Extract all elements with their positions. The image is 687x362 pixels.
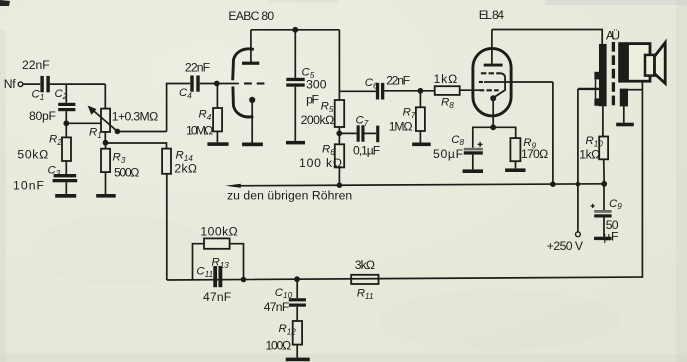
svg-text:2kΩ: 2kΩ [174,161,197,175]
svg-text:10nF: 10nF [13,179,44,193]
wire riser up to C4 line [166,84,168,132]
cathode dot of U1 [249,97,255,103]
wire C9 top lead [603,184,605,210]
wire junction to R14 [106,143,167,149]
svg-text:100 kΩ: 100 kΩ [299,156,342,170]
svg-text:EABC 80: EABC 80 [228,9,274,23]
wire R7 to ground [419,131,421,143]
node 250V riser on rail [576,182,581,187]
wire C4 to grid junction [200,83,217,85]
grid g1 dashes of U2 [480,89,499,91]
svg-text:170Ω: 170Ω [521,147,548,161]
wire R6 down to rail [338,167,340,185]
wire R2 to C3 [65,161,67,174]
svg-text:300: 300 [306,78,327,92]
ground under C5 [286,141,305,145]
wire C7 to end terminal [365,132,377,134]
ground under secondary [616,123,634,127]
rail arrow to other tubes [225,184,241,188]
svg-text:47nF: 47nF [264,300,290,314]
node R10/C9 on rail [601,181,607,187]
wire C7 branch [339,132,356,134]
svg-text:Nf: Nf [4,77,16,91]
svg-text:zu den übrigen Röhren: zu den übrigen Röhren [227,189,352,203]
svg-text:22nF: 22nF [22,58,50,72]
node cathode junction [490,124,496,130]
svg-text:47nF: 47nF [203,290,231,304]
capacitor C6 [376,83,384,100]
wire input line from Nf terminal to C1 [23,83,40,85]
grid g2 dash and exit line of U2 [479,81,483,83]
ground under R7 [412,143,431,147]
node R1/R3/R14 junction [103,140,109,146]
wire grid line solid [217,83,239,85]
resistor R11 [351,275,378,284]
wire tap stub connector [595,79,597,98]
wire U1 anode lead up [250,30,252,63]
wire C10 to R12 [296,307,298,321]
wire top bus down to R5 [338,30,340,100]
node g2 riser on rail [550,181,556,187]
transformer core dashed [612,42,615,106]
wire U2 top bus to transformer [492,30,602,44]
node top bus / C5 junction [292,27,298,33]
grid g3 dashes of U2 [481,72,501,74]
wire C5 bottom lead [294,87,296,141]
speaker neck [645,55,655,76]
wire C1 to pot top corner [50,83,106,85]
terminal bar under C9 [594,237,612,240]
capacitor C9 electrolytic [594,210,611,218]
triode U1 EABC80 envelope arc [233,49,254,117]
resistor R8 [435,86,460,95]
capacitor C10 [289,298,306,307]
wire R3 to ground [105,172,107,194]
wire C3 to ground [65,182,67,194]
node loop right on feedback line [241,277,247,283]
resistor R12 [293,321,302,345]
ground under C3 [55,194,76,198]
wire cathode network horizontal [473,127,516,148]
wire primary bottom to R10 [602,106,604,136]
svg-text:100Ω: 100Ω [266,338,292,352]
transformer AU secondary winding [620,89,628,107]
cathode dot of U2 [490,95,496,101]
resistor R13 loop [193,244,205,280]
terminal +250V [576,232,581,237]
svg-text:22nF: 22nF [386,73,410,87]
wire U1 cathode lead down [251,101,253,143]
wire tap to pot body [66,122,101,124]
resistor R4 [213,108,222,131]
ground under R3 [96,194,116,198]
svg-text:500Ω: 500Ω [114,165,139,179]
wire g2 riser down to rail [552,82,554,184]
wire to C4 [166,83,190,85]
speaker LS1 box [620,44,650,82]
node R5/R6/C7 junction [336,130,342,136]
pentode U2 EL84 envelope [473,48,511,116]
wire R9 to ground [515,161,517,168]
wire R1 bottom lead [104,132,106,143]
anode bar of U2 [484,64,503,67]
speaker magnet fill [619,43,629,82]
node C4/R4/grid junction [214,81,220,87]
wire C10 lead [296,279,298,298]
svg-text:3kΩ: 3kΩ [355,258,375,272]
svg-text:1kΩ: 1kΩ [579,147,600,161]
g3 to cathode connector of U2 [495,73,505,96]
resistor R3 [101,143,110,172]
capacitor C1 [40,76,49,92]
svg-text:1MΩ: 1MΩ [389,119,413,133]
wire secondary top to speaker wire [628,89,642,91]
wire C5 top lead [294,30,296,78]
wire R8 to EL84 grid [460,89,482,91]
resistor R14 [162,149,171,174]
resistor R6 [335,133,344,167]
ground under R9 [505,168,525,172]
potentiometer R1 body [101,109,110,132]
wire 250V riser and tap feed [578,88,599,90]
ground under R4 [207,142,228,146]
svg-text:1+0.3MΩ: 1+0.3MΩ [112,110,158,124]
node C2/R2/tap junction [63,120,69,126]
wire C9 to terminal bar [603,218,605,237]
wire R4 top lead [216,84,218,109]
svg-text:AÜ: AÜ [606,28,620,42]
ground under C8 [463,169,483,173]
anode bar of U1 [242,62,259,65]
capacitor C3 [53,174,78,182]
svg-text:50µF: 50µF [433,147,463,161]
node R6 on rail [337,182,343,188]
svg-text:50kΩ: 50kΩ [17,148,48,162]
potentiometer R1 wiper arrow [88,106,117,131]
svg-text:0,1µF: 0,1µF [353,144,380,158]
wire R4 to ground [216,131,218,142]
ground under R12 [286,358,310,362]
svg-text:10MΩ: 10MΩ [186,123,213,137]
plus mark C9 [591,204,595,208]
wire C2 to tap node [65,111,67,123]
speaker cone [655,43,666,84]
wire grid dashes inside tube [244,82,264,84]
svg-text:µF: µF [603,230,618,244]
transformer AU primary winding [599,44,607,106]
wire C2 hang lead [65,84,67,103]
wire supply rail [233,184,604,186]
wire secondary bottom lead [623,106,625,122]
capacitor C2 [58,103,75,111]
node R7/R8 junction [418,88,424,94]
primary tap stubs [594,72,599,106]
wire C8 to ground [472,155,474,170]
capacitor C7 [357,125,365,141]
svg-text:pF: pF [306,93,319,107]
resistor R2 [62,137,71,161]
wire tap node down to R2 [65,123,67,137]
scan corner mark [0,0,10,6]
wire R10 to rail [603,159,606,184]
resistor R5 [335,100,345,127]
resistor R9 [510,138,520,161]
svg-text:22nF: 22nF [185,60,210,74]
wire C6 line from R5 riser [339,90,376,92]
svg-text:1kΩ: 1kΩ [434,72,458,86]
resistor R13 [204,238,230,248]
wire C6 to R8 [384,90,434,92]
svg-text:200kΩ: 200kΩ [301,113,335,127]
wire R7 top lead [419,91,421,108]
resistor R7 [416,107,425,131]
wire U2 anode lead [491,30,493,64]
capacitor C5 [286,78,304,87]
wire anode top bus [251,29,340,31]
wire R14 down to feedback line [166,174,168,280]
capacitor C11 [213,266,222,287]
ground under U1 cathode [242,143,263,147]
wire pot top lead [104,84,106,109]
wire R5 to junction [338,127,340,133]
svg-text:EL 84: EL 84 [479,8,505,22]
wire U2 cathode lead [492,100,494,128]
plus mark C8 [478,142,483,147]
svg-text:80pF: 80pF [29,109,56,123]
node C10 on feedback line [294,276,300,282]
wire R12 to ground [296,345,298,358]
svg-text:+250 V: +250 V [547,239,584,253]
resistor R10 [599,137,608,160]
node wiper dot [115,129,121,135]
capacitor C8 electrolytic [464,148,483,155]
wire wiper to C4 riser [117,131,166,133]
node Nf input terminal [18,82,23,87]
wire speaker feedback drop [167,81,643,280]
svg-text:100kΩ: 100kΩ [200,224,237,238]
capacitor C4 [190,76,199,92]
terminal bar after C7 [376,126,379,143]
